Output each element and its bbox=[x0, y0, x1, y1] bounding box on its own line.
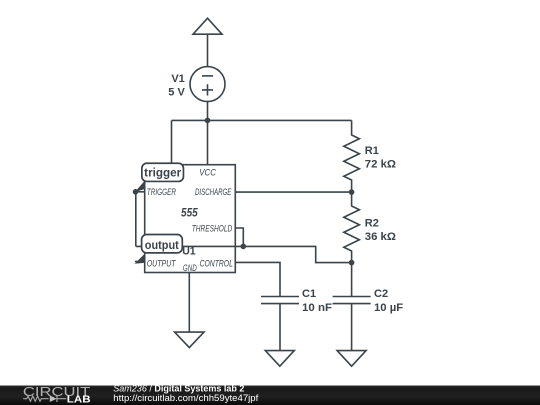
resistor R1 bbox=[344, 120, 360, 192]
wire OUTPUT pin stub bbox=[135, 261, 145, 263]
svg-text:GND: GND bbox=[183, 263, 197, 273]
node threshold stub bbox=[241, 244, 247, 250]
svg-text:THRESHOLD: THRESHOLD bbox=[192, 224, 233, 234]
flag trigger bbox=[135, 163, 184, 192]
wire R2 junction down to C2 bbox=[351, 263, 353, 297]
V1 minus sign bbox=[202, 75, 213, 77]
wire GND pin down bbox=[188, 273, 190, 333]
power flag VCC (up arrow) bbox=[193, 18, 222, 34]
svg-text:R1: R1 bbox=[365, 145, 379, 157]
ground symbol under C1 bbox=[265, 351, 294, 367]
svg-text:LAB: LAB bbox=[67, 395, 91, 405]
svg-text:10 nF: 10 nF bbox=[302, 302, 332, 314]
svg-text:CONTROL: CONTROL bbox=[200, 259, 233, 269]
svg-text:U1: U1 bbox=[182, 246, 195, 258]
V1 plus sign bbox=[202, 84, 213, 95]
wire VCC pin (node to 555 top) bbox=[207, 120, 209, 164]
resistor R2 bbox=[344, 192, 360, 263]
svg-text:OUTPUT: OUTPUT bbox=[147, 259, 177, 269]
wire V1 bottom to rail node bbox=[207, 101, 209, 121]
svg-text:output: output bbox=[145, 240, 179, 252]
wire THRESHOLD pin stub bbox=[235, 228, 243, 246]
voltage source V1 circle bbox=[190, 67, 225, 102]
wire threshold net horizontal (behind output flag, to threshold dot) bbox=[136, 245, 244, 247]
wire trigger node down to threshold net (behind output flag) bbox=[135, 192, 137, 247]
svg-text:TRIGGER: TRIGGER bbox=[147, 187, 177, 197]
node trigger pin bbox=[133, 189, 139, 195]
wire threshold net to R2/C2 junction bbox=[243, 246, 351, 262]
svg-text:5 V: 5 V bbox=[168, 87, 185, 99]
svg-text:trigger: trigger bbox=[144, 168, 182, 180]
svg-text:555: 555 bbox=[181, 205, 198, 219]
svg-text:DISCHARGE: DISCHARGE bbox=[195, 187, 232, 197]
svg-text:C2: C2 bbox=[374, 288, 388, 300]
ground symbol under 555 bbox=[175, 332, 204, 348]
svg-text:R2: R2 bbox=[365, 218, 379, 230]
wire DISCHARGE pin to R1/R2 junction bbox=[235, 191, 351, 193]
svg-text:C1: C1 bbox=[302, 288, 316, 300]
flag output bbox=[135, 235, 183, 264]
svg-text:http://circuitlab.com/chh59yte: http://circuitlab.com/chh59yte47jpf bbox=[113, 393, 259, 403]
wire VCC arrow to V1 top bbox=[207, 34, 209, 67]
capacitor C2 bbox=[333, 297, 371, 351]
node V1/rail junction bbox=[205, 118, 211, 124]
logo resistor-diode squiggle bbox=[23, 396, 48, 401]
svg-text:36 kΩ: 36 kΩ bbox=[365, 231, 396, 243]
ground symbol under C2 bbox=[337, 351, 366, 367]
capacitor C1 bbox=[261, 297, 299, 351]
op-amp U1 555 timer box bbox=[145, 165, 236, 273]
svg-text:72 kΩ: 72 kΩ bbox=[365, 159, 396, 171]
svg-text:VCC: VCC bbox=[199, 167, 216, 177]
svg-text:V1: V1 bbox=[171, 73, 184, 85]
wire CONTROL pin to C1 bbox=[235, 262, 280, 296]
node R2/C2/threshold junction bbox=[349, 260, 355, 266]
wire TRIGGER pin stub bbox=[136, 191, 145, 193]
wire RESET drop (rail to 555 top, behind trigger flag) bbox=[171, 120, 173, 164]
node R1/R2/discharge junction bbox=[349, 189, 355, 195]
wire rail (V1+ to R1 top, left to RESET drop) bbox=[172, 119, 352, 121]
svg-text:10 µF: 10 µF bbox=[374, 302, 403, 314]
